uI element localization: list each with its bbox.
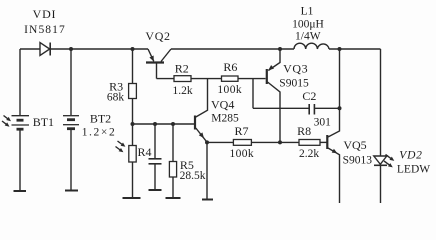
svg-text:BT2: BT2 bbox=[90, 112, 111, 126]
svg-text:IN5817: IN5817 bbox=[24, 24, 66, 36]
svg-text:R4: R4 bbox=[138, 145, 152, 159]
svg-text:S9013: S9013 bbox=[343, 155, 373, 167]
LED VD2 bbox=[374, 155, 395, 204]
wire right branch down to VD2 bbox=[380, 49, 382, 156]
svg-text:VDI: VDI bbox=[33, 7, 57, 21]
wire VQ4 emitter to ground bbox=[206, 142, 208, 199]
svg-text:100μH: 100μH bbox=[292, 19, 324, 31]
node dot R7 R8 VQ3 collector junction bbox=[278, 140, 282, 144]
ground bar R5 bbox=[166, 197, 181, 199]
resistor R6 bbox=[222, 76, 266, 81]
resistor R5 bbox=[169, 124, 176, 198]
wire BT2 branch bbox=[70, 49, 72, 115]
svg-text:1.2×2: 1.2×2 bbox=[82, 127, 117, 139]
wire R3 top lead bbox=[132, 49, 134, 84]
ground bar VQ4 bbox=[202, 199, 213, 201]
svg-text:68k: 68k bbox=[107, 92, 125, 104]
wire top rail from VQ2 collector to L1 bbox=[171, 48, 294, 50]
ground bar BT1 bbox=[14, 190, 27, 192]
node dot C2 right junction bbox=[338, 106, 342, 110]
wire photodivider node rail bbox=[133, 123, 195, 125]
resistor R7 bbox=[207, 140, 280, 146]
node dot VQ3 emitter rail junction bbox=[278, 47, 282, 51]
svg-text:1/4W: 1/4W bbox=[295, 31, 321, 43]
node dot VQ4 emitter junction bbox=[205, 140, 209, 144]
wire R3 bottom lead to node rail bbox=[132, 99, 134, 125]
inductor L1 bbox=[294, 43, 329, 49]
diode VD1 bbox=[40, 43, 50, 56]
resistor R8 bbox=[280, 140, 327, 146]
svg-text:VD2: VD2 bbox=[399, 150, 422, 162]
svg-text:VQ4: VQ4 bbox=[211, 98, 234, 112]
svg-text:C2: C2 bbox=[302, 89, 316, 103]
svg-text:R2: R2 bbox=[175, 62, 189, 76]
capacitor C2 bbox=[253, 79, 340, 115]
svg-text:VQ2: VQ2 bbox=[145, 29, 170, 43]
solar cell BT1 bbox=[2, 49, 29, 191]
ground bar C1 bbox=[149, 189, 162, 191]
resistor R2 bbox=[157, 76, 222, 82]
resistor R3 bbox=[129, 84, 137, 99]
wire top rail left segment bbox=[20, 48, 148, 50]
svg-text:VQ3: VQ3 bbox=[283, 62, 308, 76]
svg-text:BT1: BT1 bbox=[33, 115, 54, 129]
node dot R5 junction bbox=[171, 122, 175, 126]
svg-text:100k: 100k bbox=[229, 148, 254, 160]
ground bar BT2 bbox=[65, 190, 78, 192]
wire L1 right lead to top-right corner bbox=[329, 48, 381, 50]
svg-text:28.5k: 28.5k bbox=[180, 170, 206, 182]
svg-text:R6: R6 bbox=[223, 60, 237, 74]
svg-text:2.2k: 2.2k bbox=[299, 148, 319, 160]
transistor VQ4 bbox=[195, 79, 208, 143]
node dot L1 right junction bbox=[338, 47, 342, 51]
ground bar R4 bbox=[123, 197, 141, 199]
transistor VQ3 bbox=[267, 49, 280, 142]
transistor VQ2 bbox=[146, 49, 171, 79]
svg-text:301: 301 bbox=[314, 117, 332, 129]
svg-text:100k: 100k bbox=[217, 84, 242, 96]
svg-text:VQ5: VQ5 bbox=[343, 138, 366, 152]
svg-text:1.2k: 1.2k bbox=[173, 85, 193, 97]
photoresistor R4 bbox=[116, 124, 137, 198]
node dot R4 junction bbox=[131, 122, 135, 126]
capacitor C1 bbox=[149, 124, 162, 190]
svg-text:R8: R8 bbox=[297, 124, 311, 138]
node dot BT2 junction bbox=[69, 47, 73, 51]
svg-text:S9015: S9015 bbox=[279, 78, 309, 90]
svg-text:R7: R7 bbox=[234, 124, 248, 138]
svg-text:L1: L1 bbox=[301, 6, 314, 18]
svg-text:M285: M285 bbox=[211, 113, 239, 125]
node dot R3 top junction bbox=[131, 47, 135, 51]
transistor VQ5 bbox=[327, 49, 339, 203]
battery BT2 bbox=[63, 116, 79, 190]
svg-text:LEDW: LEDW bbox=[397, 164, 430, 176]
node dot C1 junction bbox=[153, 122, 157, 126]
